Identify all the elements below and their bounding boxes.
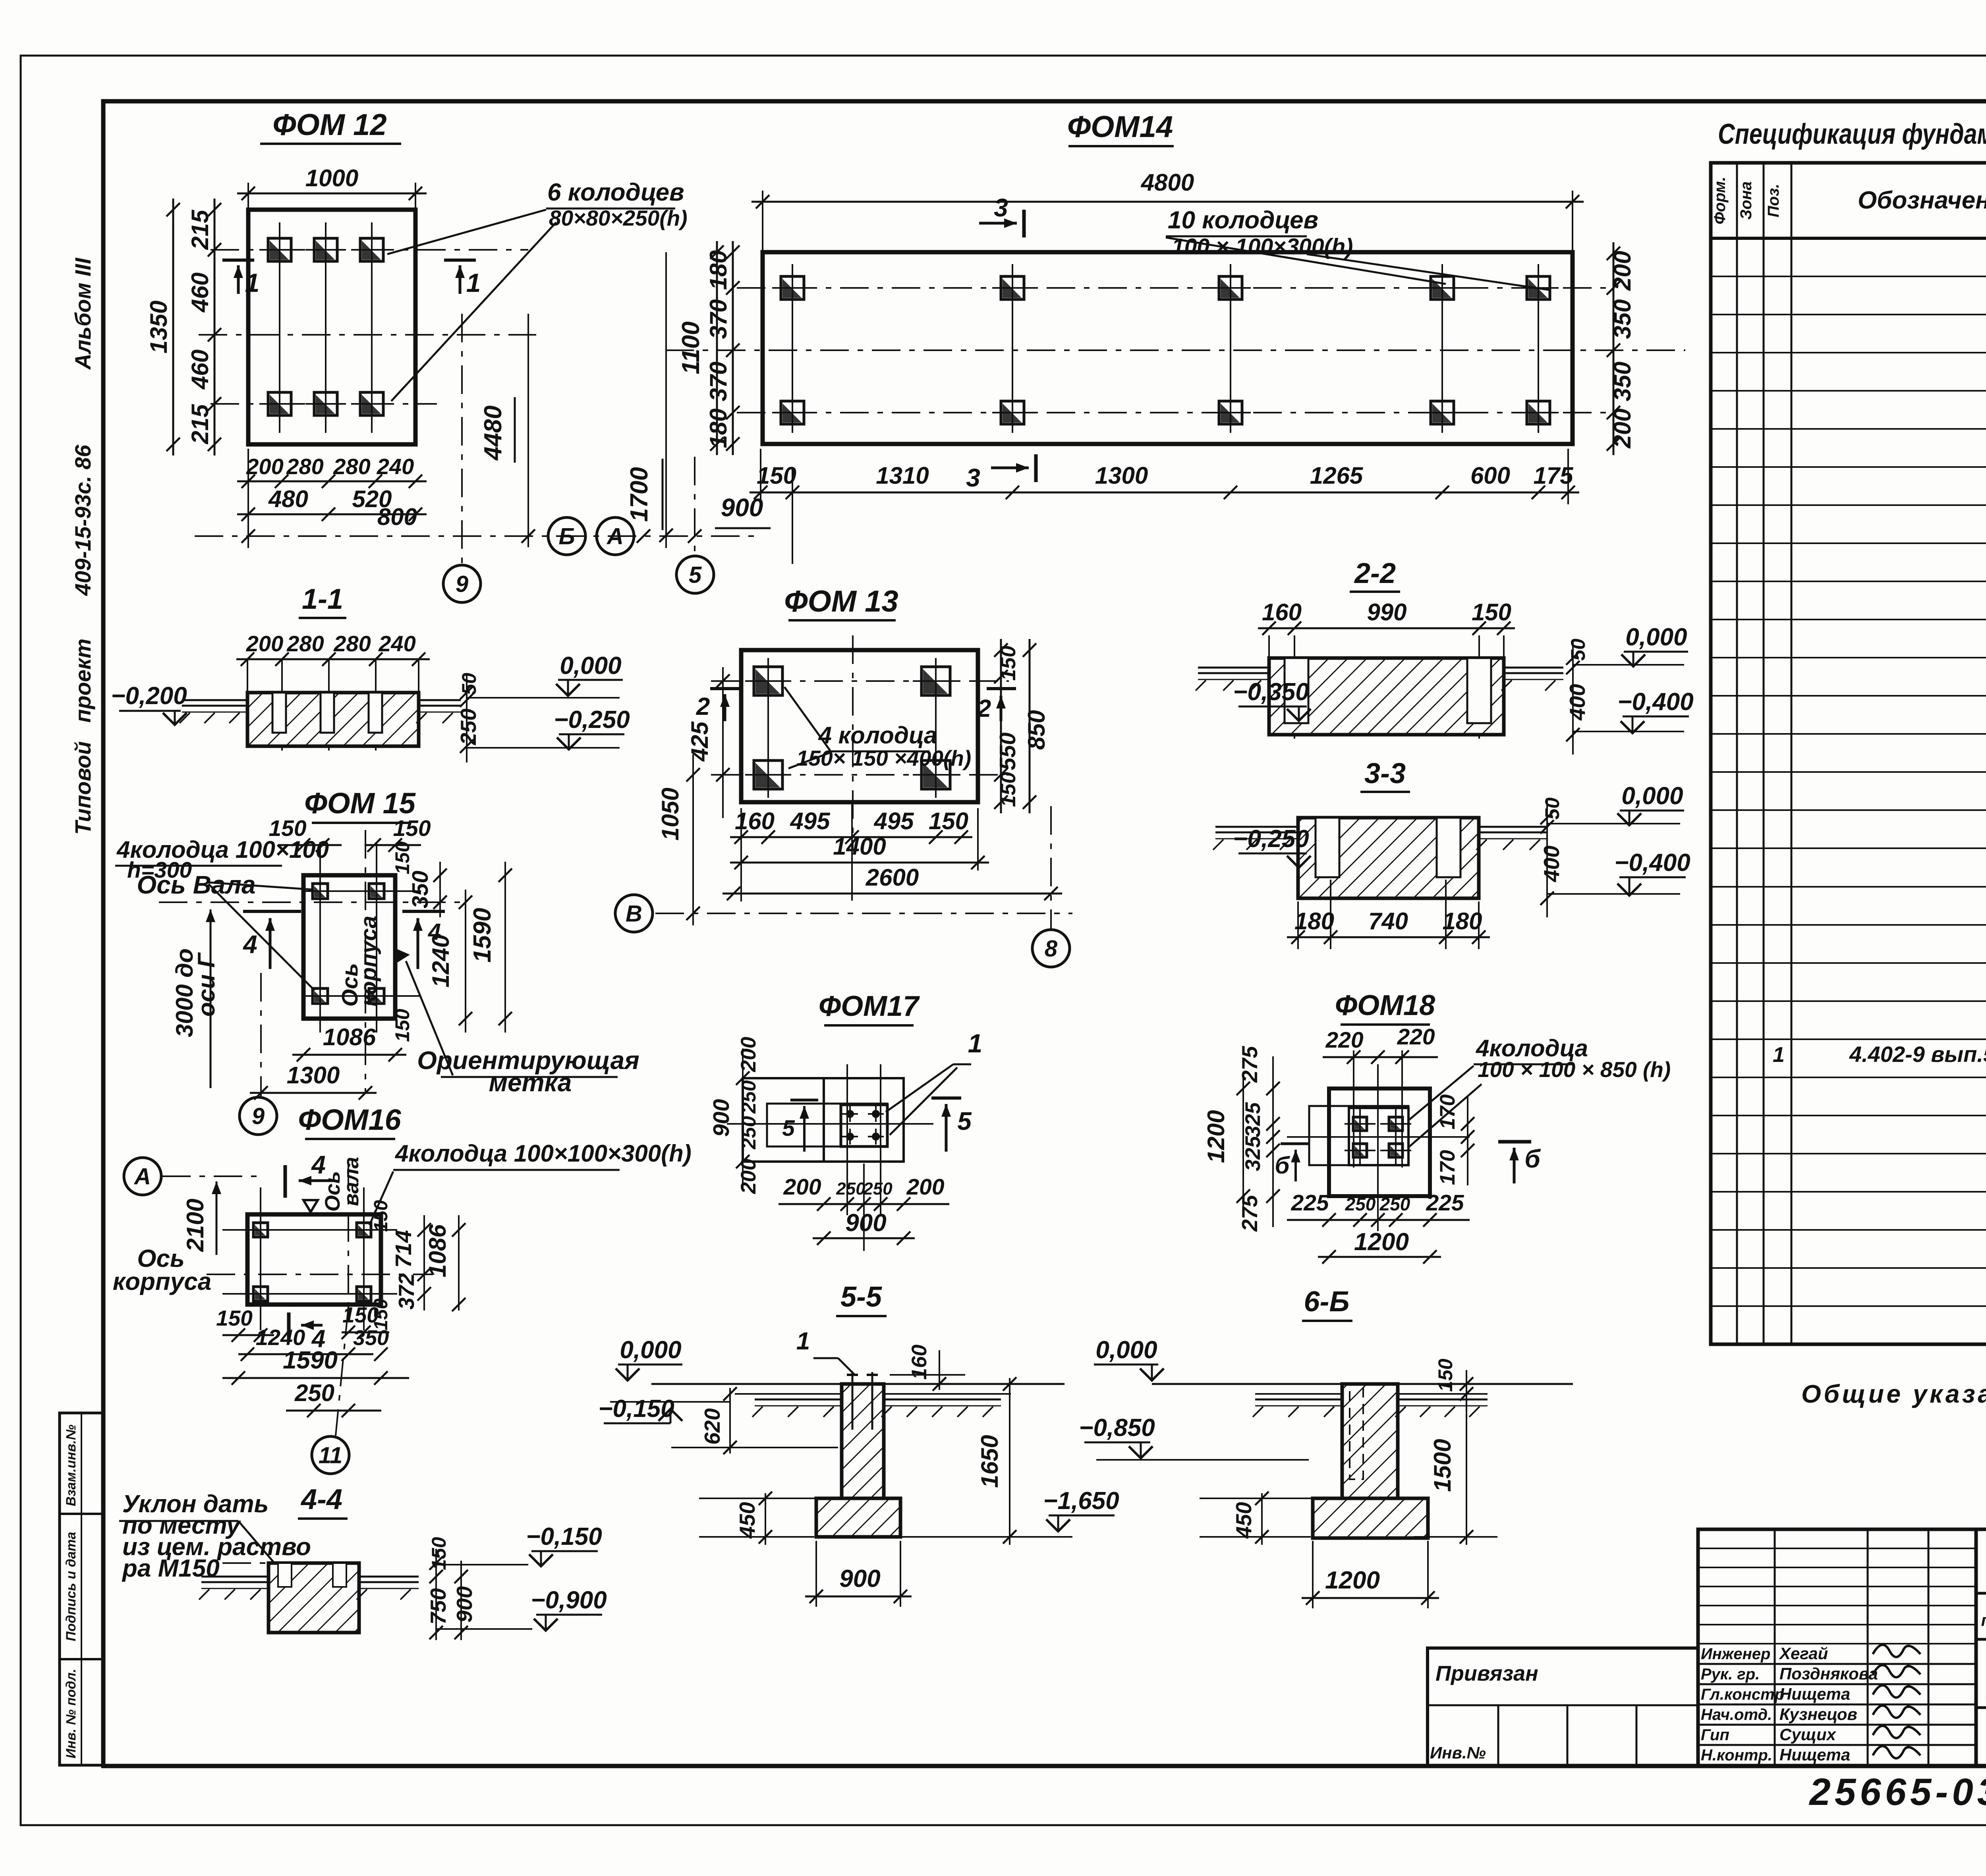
- FOM12 plan outline: [248, 210, 415, 444]
- axis circle A left of FOM16: [124, 1158, 161, 1195]
- svg-text:ФОМ14: ФОМ14: [1067, 110, 1173, 144]
- svg-text:325: 325: [1241, 1102, 1265, 1137]
- svg-text:150: 150: [929, 808, 968, 834]
- svg-text:600: 600: [1470, 462, 1510, 489]
- svg-text:Нач.отд.: Нач.отд.: [1701, 1706, 1772, 1724]
- FOM13 extension lines bottom: [740, 808, 742, 901]
- FOM18 wells: [1345, 1108, 1376, 1139]
- svg-text:1700: 1700: [626, 467, 653, 522]
- svg-text:495: 495: [873, 808, 914, 834]
- svg-text:0,000: 0,000: [620, 1336, 681, 1364]
- svg-text:4 колодца: 4 колодца: [818, 722, 937, 749]
- FOM16 anchor wells: [245, 1214, 276, 1246]
- svg-text:А: А: [606, 523, 624, 549]
- section 2-2 ground left: [1198, 672, 1269, 674]
- svg-text:150: 150: [393, 816, 431, 841]
- axis circle A: [597, 517, 634, 555]
- svg-text:250: 250: [1345, 1194, 1376, 1214]
- svg-text:Взам.инв.№: Взам.инв.№: [64, 1424, 79, 1506]
- svg-text:1086: 1086: [323, 1024, 376, 1050]
- axis circle 5: [676, 556, 714, 593]
- svg-text:4480: 4480: [479, 405, 507, 461]
- svg-text:Хегай: Хегай: [1779, 1644, 1828, 1663]
- svg-text:150: 150: [371, 1200, 392, 1232]
- section 6-6 dim 450: [1261, 1493, 1263, 1545]
- svg-text:280: 280: [333, 454, 370, 479]
- section 1-1 top dims 200/280/280/240: [236, 658, 430, 660]
- FOM18 equipment outline: [1309, 1106, 1408, 1165]
- svg-text:5: 5: [782, 1116, 795, 1141]
- FOM16 plan outline: [247, 1214, 381, 1305]
- FOM17 equipment outline: [767, 1104, 887, 1146]
- svg-text:200: 200: [246, 454, 283, 479]
- FOM13 bottom dims 160/495/495/150: [730, 836, 972, 838]
- section 6-6 bottom dim 1200: [1302, 1597, 1439, 1599]
- svg-text:714: 714: [391, 1230, 416, 1268]
- svg-text:1200: 1200: [1203, 1110, 1229, 1163]
- svg-text:240: 240: [377, 454, 414, 479]
- title block staff table: [1698, 1529, 1976, 1766]
- svg-text:150: 150: [391, 841, 413, 874]
- svg-text:150: 150: [1472, 599, 1511, 625]
- svg-text:Типовой проект: Типовой проект: [70, 639, 95, 835]
- FOM18 inner plate: [1349, 1108, 1408, 1165]
- svg-text:1200: 1200: [1354, 1228, 1409, 1256]
- svg-text:3: 3: [966, 463, 980, 492]
- FOM15 dim 1590: [504, 862, 506, 1033]
- FOM17 bolts: [846, 1110, 854, 1118]
- svg-text:1: 1: [1773, 1043, 1785, 1067]
- svg-text:275: 275: [1237, 1195, 1262, 1232]
- FOM13 centerlines: [711, 680, 1009, 682]
- section 6-6 base: [1313, 1498, 1428, 1538]
- svg-text:4: 4: [428, 919, 441, 945]
- FOM13 section mark 2 right: [987, 687, 1016, 690]
- svg-text:200: 200: [737, 1037, 760, 1072]
- svg-text:−0,250: −0,250: [1233, 825, 1309, 853]
- FOM12 top dimension 1000: [237, 193, 427, 195]
- FOM13 dim 2600: [723, 893, 1062, 895]
- svg-text:150× 150 ×400(h): 150× 150 ×400(h): [796, 746, 971, 770]
- svg-text:ФОМ17: ФОМ17: [819, 990, 920, 1022]
- svg-text:ра М150: ра М150: [122, 1555, 220, 1582]
- FOM15 orientation mark: [397, 949, 410, 963]
- svg-text:Привязан: Привязан: [1435, 1662, 1538, 1685]
- spec table grid: [1711, 163, 1986, 1344]
- svg-text:10 колодцев: 10 колодцев: [1168, 207, 1318, 234]
- svg-text:Гип: Гип: [1701, 1726, 1729, 1744]
- svg-text:180: 180: [1442, 908, 1482, 934]
- FOM12 bottom dimensions 480/520: [237, 513, 427, 515]
- svg-text:350: 350: [1609, 299, 1636, 339]
- svg-text:−0,150: −0,150: [526, 1523, 602, 1550]
- FOM15 section mark 4 right: [402, 910, 445, 913]
- svg-text:1265: 1265: [1310, 462, 1364, 489]
- section 1-1 floor line: [182, 699, 247, 701]
- section 2-2 ground right: [1504, 672, 1563, 674]
- svg-text:h=300: h=300: [127, 857, 192, 883]
- svg-text:325: 325: [1241, 1135, 1265, 1171]
- svg-text:250: 250: [1379, 1194, 1410, 1214]
- svg-text:2600: 2600: [865, 864, 919, 891]
- svg-text:Инженер: Инженер: [1701, 1645, 1770, 1663]
- svg-text:6 колодцев: 6 колодцев: [547, 179, 684, 206]
- svg-text:Кузнецов: Кузнецов: [1779, 1705, 1857, 1724]
- svg-text:Инв.№: Инв.№: [1430, 1743, 1486, 1762]
- svg-text:Б: Б: [558, 523, 575, 549]
- svg-text:−0,400: −0,400: [1614, 849, 1690, 876]
- FOM16 section mark 4 top: [284, 1165, 287, 1198]
- axis circle 9 under FOM12: [443, 565, 481, 602]
- section 3-3 ground right: [1479, 832, 1548, 834]
- svg-text:370: 370: [705, 361, 732, 401]
- FOM12 section mark 1 left: [222, 259, 254, 262]
- svg-text:200: 200: [906, 1174, 944, 1200]
- FOM18 section mark b left: [1281, 1143, 1310, 1145]
- svg-text:550: 550: [995, 732, 1020, 770]
- svg-text:9: 9: [456, 571, 468, 597]
- svg-text:200: 200: [1609, 408, 1636, 448]
- FOM12 left dimensions 215/460/460/215: [214, 199, 216, 455]
- FOM13 section mark 2 left: [710, 687, 740, 690]
- FOM14 section mark 3 bottom: [991, 467, 1029, 469]
- svg-text:250: 250: [294, 1380, 334, 1406]
- section 1-1 right dims 50/250: [466, 675, 468, 762]
- FOM18 plan outline: [1329, 1089, 1430, 1196]
- svg-text:5: 5: [957, 1107, 972, 1135]
- svg-text:Рук. гр.: Рук. гр.: [1701, 1666, 1760, 1683]
- svg-text:Форм.: Форм.: [1711, 177, 1729, 224]
- privyazan box: [1428, 1648, 1698, 1766]
- svg-text:250: 250: [836, 1179, 865, 1199]
- svg-text:2: 2: [696, 693, 710, 720]
- svg-text:1200: 1200: [1325, 1567, 1380, 1594]
- FOM17 section mark 5 right: [931, 1096, 961, 1100]
- svg-text:Спецификация фундаментов под: Спецификация фундаментов под оборудовани…: [1718, 118, 1986, 150]
- svg-text:150: 150: [269, 816, 306, 841]
- section 6-6 dim 150: [1466, 1370, 1467, 1545]
- svg-text:Поз.: Поз.: [1765, 184, 1782, 218]
- section 3-3 floor lines: [1215, 826, 1298, 828]
- svg-text:1: 1: [245, 268, 260, 297]
- FOM14 centerlines: [737, 287, 1615, 289]
- svg-text:Альбом III: Альбом III: [70, 257, 95, 371]
- svg-text:4-4: 4-4: [300, 1484, 342, 1515]
- FOM13 dim 1400: [730, 862, 989, 864]
- svg-text:900: 900: [845, 1209, 886, 1237]
- svg-text:215: 215: [187, 209, 213, 250]
- svg-text:1240: 1240: [256, 1325, 305, 1350]
- FOM15 section mark 4 left: [243, 910, 301, 913]
- svg-text:25665-03 30: 25665-03 30: [1808, 1771, 1986, 1813]
- FOM14 bottom dimensions: [750, 492, 1579, 494]
- svg-text:Гл.констр: Гл.констр: [1701, 1686, 1784, 1703]
- svg-text:Сущих: Сущих: [1779, 1725, 1837, 1744]
- svg-text:1050: 1050: [657, 787, 684, 840]
- svg-text:460: 460: [187, 272, 213, 313]
- FOM18 bottom dim 1200: [1318, 1256, 1441, 1258]
- svg-text:5: 5: [689, 562, 702, 588]
- axis line B-A: [195, 535, 763, 537]
- svg-text:400: 400: [1539, 845, 1564, 882]
- svg-text:корпуса: корпуса: [356, 916, 381, 1006]
- svg-text:750: 750: [426, 1588, 450, 1625]
- svg-text:1: 1: [796, 1328, 810, 1355]
- svg-text:450: 450: [735, 1502, 759, 1539]
- FOM18 section mark b right: [1498, 1140, 1531, 1144]
- section 1-1 body: [247, 693, 419, 746]
- section 2-2 top dims 160/990/150: [1258, 627, 1515, 629]
- svg-text:740: 740: [1368, 908, 1408, 934]
- FOM15 dim 1240: [465, 890, 466, 1033]
- svg-text:180: 180: [705, 250, 732, 290]
- FOM15 anchor wells: [304, 875, 336, 907]
- FOM16 orientation triangle: [303, 1200, 318, 1212]
- FOM17 bottom dim 900: [813, 1237, 915, 1239]
- svg-text:220: 220: [1397, 1024, 1435, 1050]
- section 2-2 right dims 50/400: [1572, 639, 1574, 755]
- svg-text:−0,350: −0,350: [1233, 678, 1309, 706]
- svg-text:225: 225: [1291, 1190, 1329, 1216]
- section 6-6 floor lines: [1152, 1383, 1342, 1385]
- title block right part: [1976, 1529, 1986, 1766]
- FOM13 left dims: [722, 667, 724, 818]
- svg-text:372: 372: [394, 1273, 419, 1310]
- svg-text:280: 280: [286, 454, 323, 479]
- svg-text:100 × 100×300(h): 100 × 100×300(h): [1172, 234, 1353, 259]
- svg-text:Позднякова: Позднякова: [1779, 1664, 1878, 1683]
- FOM17 plan outline: [743, 1078, 904, 1162]
- svg-text:50: 50: [1567, 639, 1589, 661]
- section 5-5 pillar: [842, 1384, 884, 1498]
- section 1-1 ground right: [419, 705, 461, 707]
- svg-text:2100: 2100: [182, 1199, 209, 1252]
- svg-text:50: 50: [458, 673, 480, 695]
- svg-text:1500: 1500: [1429, 1439, 1456, 1492]
- svg-text:250: 250: [738, 1116, 760, 1150]
- svg-text:0,000: 0,000: [1625, 623, 1687, 651]
- axis circle 9 under FOM15: [240, 1097, 277, 1135]
- svg-text:900: 900: [839, 1565, 880, 1592]
- section 6-6 pillar: [1342, 1384, 1398, 1498]
- svg-text:оси Г: оси Г: [193, 952, 220, 1017]
- svg-text:409-15-93с. 86: 409-15-93с. 86: [70, 444, 95, 596]
- svg-text:1000: 1000: [305, 165, 358, 191]
- svg-text:б: б: [1524, 1145, 1541, 1173]
- FOM17 section mark 5 left: [790, 1099, 818, 1102]
- svg-text:200: 200: [1609, 251, 1636, 291]
- FOM13 right dims 150/550/150 and 850: [1000, 639, 1002, 813]
- FOM15 centerlines: [159, 901, 465, 903]
- FOM17 bolts square: [841, 1105, 887, 1146]
- svg-text:180: 180: [1294, 908, 1334, 934]
- svg-text:250: 250: [456, 708, 481, 745]
- FOM17 centerlines: [727, 1123, 933, 1125]
- svg-text:9: 9: [252, 1103, 265, 1129]
- svg-text:6-Б: 6-Б: [1304, 1286, 1350, 1318]
- svg-text:425: 425: [686, 721, 713, 762]
- FOM16 centerlines: [207, 1274, 433, 1275]
- svg-text:3: 3: [994, 193, 1008, 222]
- svg-text:80×80×250(h): 80×80×250(h): [549, 206, 688, 230]
- svg-text:370: 370: [705, 299, 732, 339]
- svg-text:−0,900: −0,900: [531, 1586, 607, 1614]
- svg-text:1: 1: [466, 268, 481, 297]
- svg-text:900: 900: [452, 1586, 477, 1623]
- svg-text:800: 800: [377, 504, 417, 530]
- svg-text:215: 215: [187, 403, 213, 444]
- svg-text:1300: 1300: [1095, 462, 1148, 489]
- section 4-4 body: [269, 1563, 359, 1633]
- section 4-4 right dims: [435, 1549, 437, 1640]
- section 5-5 dim 620: [729, 1388, 731, 1453]
- axis circle 11 under FOM16: [312, 1436, 349, 1474]
- FOM12 section mark 1 right: [444, 259, 476, 262]
- svg-text:−0,850: −0,850: [1079, 1414, 1155, 1442]
- svg-text:0,000: 0,000: [560, 652, 621, 679]
- svg-text:В: В: [626, 901, 642, 926]
- svg-text:460: 460: [187, 349, 213, 390]
- svg-text:11: 11: [319, 1442, 342, 1468]
- svg-text:50: 50: [1541, 797, 1563, 820]
- FOM14 dimension 1700: [665, 252, 667, 548]
- svg-text:240: 240: [378, 631, 415, 656]
- FOM14 plan outline: [763, 252, 1573, 444]
- svg-text:1590: 1590: [283, 1347, 338, 1374]
- section 2-2 body: [1269, 658, 1504, 735]
- svg-text:200: 200: [246, 631, 283, 656]
- svg-text:1-1: 1-1: [302, 583, 343, 615]
- svg-text:Нищета: Нищета: [1779, 1685, 1850, 1703]
- svg-text:275: 275: [1237, 1046, 1262, 1083]
- svg-text:200: 200: [783, 1174, 821, 1200]
- svg-text:495: 495: [790, 808, 831, 834]
- FOM15 bottom dim 1086: [292, 1054, 406, 1056]
- svg-text:ФОМ 12: ФОМ 12: [272, 108, 386, 142]
- FOM14 right dimensions 200/350/350/200: [1613, 242, 1615, 455]
- svg-text:ФОМ 13: ФОМ 13: [784, 585, 898, 618]
- svg-text:150: 150: [1434, 1359, 1457, 1392]
- section 5-5 base: [816, 1498, 900, 1537]
- svg-text:Инв. № подл.: Инв. № подл.: [64, 1669, 79, 1758]
- svg-text:вала: вала: [340, 1157, 363, 1206]
- FOM12 anchor wells: [259, 230, 300, 270]
- section 5-5 floor lines: [651, 1383, 842, 1385]
- svg-text:2: 2: [977, 695, 991, 722]
- svg-text:280: 280: [286, 631, 324, 656]
- svg-text:170: 170: [1436, 1094, 1459, 1129]
- FOM14 dimension 1100: [716, 241, 718, 455]
- section 1-1 ground left: [182, 705, 247, 707]
- axis extension line right of 5: [792, 469, 793, 564]
- svg-text:150: 150: [997, 772, 1020, 807]
- svg-text:1650: 1650: [976, 1435, 1003, 1488]
- svg-text:150: 150: [391, 1009, 413, 1042]
- svg-text:225: 225: [1426, 1190, 1464, 1216]
- svg-text:8: 8: [1045, 936, 1058, 961]
- svg-text:Подпись и дата: Подпись и дата: [64, 1532, 79, 1641]
- section 2-2 floor lines: [1198, 667, 1269, 669]
- section 5-5 dim 1650: [1009, 1378, 1010, 1545]
- svg-text:метка: метка: [489, 1068, 572, 1097]
- svg-text:Н.контр.: Н.контр.: [1701, 1747, 1772, 1764]
- svg-text:корпуса: корпуса: [113, 1268, 211, 1295]
- svg-text:4: 4: [242, 930, 257, 959]
- svg-text:4колодца 100×100×300(h): 4колодца 100×100×300(h): [395, 1140, 692, 1167]
- section 3-3 ground left: [1215, 832, 1298, 834]
- FOM16 section mark 4 bottom: [287, 1312, 291, 1341]
- axis circle V: [615, 895, 653, 932]
- section 3-3 bottom dims 180/740/180: [1287, 936, 1490, 938]
- svg-text:Нищета: Нищета: [1779, 1745, 1850, 1764]
- svg-text:−0,150: −0,150: [598, 1395, 674, 1422]
- svg-text:150: 150: [757, 462, 796, 489]
- svg-text:900: 900: [709, 1099, 734, 1137]
- FOM12 dimension 1350: [172, 199, 174, 455]
- svg-text:−0,200: −0,200: [111, 682, 187, 710]
- svg-text:−1,650: −1,650: [1043, 1487, 1119, 1515]
- svg-text:620: 620: [700, 1408, 724, 1445]
- section 5-5 bottom dim 900: [805, 1596, 912, 1598]
- section 5-5 dim 450: [765, 1493, 766, 1545]
- svg-text:0,000: 0,000: [1621, 782, 1683, 810]
- svg-text:3-3: 3-3: [1364, 758, 1406, 789]
- svg-text:4.402-9 вып.5: 4.402-9 вып.5: [1849, 1042, 1986, 1067]
- svg-text:−0,250: −0,250: [554, 706, 630, 733]
- svg-text:350: 350: [353, 1326, 389, 1350]
- FOM15 bottom dim 1300: [250, 1092, 377, 1094]
- FOM13 anchor wells: [745, 658, 791, 704]
- svg-text:2-2: 2-2: [1354, 558, 1396, 589]
- FOM14 anchor wells: [772, 268, 813, 308]
- section 3-3 body: [1298, 818, 1479, 898]
- svg-text:250: 250: [863, 1179, 893, 1199]
- svg-text:А: А: [133, 1164, 151, 1189]
- svg-text:150: 150: [997, 646, 1020, 681]
- FOM14 left dimensions 180/370/370/180: [732, 241, 734, 455]
- svg-text:350: 350: [1609, 361, 1636, 401]
- svg-text:1310: 1310: [876, 462, 929, 489]
- section 4-4 floor lines: [201, 1576, 269, 1578]
- FOM18 centerlines: [1287, 1136, 1470, 1138]
- svg-text:−0,400: −0,400: [1617, 688, 1693, 716]
- svg-text:220: 220: [1325, 1027, 1363, 1053]
- svg-text:480: 480: [268, 486, 308, 512]
- section 6-6 well dashed: [1350, 1384, 1363, 1479]
- svg-text:1350: 1350: [145, 301, 172, 353]
- svg-text:1400: 1400: [833, 833, 886, 860]
- axis circle B: [548, 517, 585, 555]
- FOM14 section mark 3 top: [979, 222, 1017, 225]
- FOM14 top dimension 4800: [752, 201, 1584, 203]
- svg-text:150: 150: [216, 1306, 253, 1330]
- svg-text:1100: 1100: [677, 321, 705, 374]
- svg-text:990: 990: [1367, 599, 1406, 625]
- svg-text:Обозначение: Обозначение: [1858, 187, 1986, 214]
- svg-text:программой 200 тыс. руб. (для: программой 200 тыс. руб. (для районов с …: [1981, 1611, 1986, 1629]
- FOM12 centerlines: [211, 249, 528, 251]
- svg-text:160: 160: [1262, 599, 1302, 625]
- svg-text:170: 170: [1436, 1150, 1459, 1185]
- svg-text:0,000: 0,000: [1095, 1336, 1157, 1364]
- svg-text:ФОМ18: ФОМ18: [1335, 990, 1435, 1021]
- FOM12 bottom dimensions 200/280/280/240: [237, 481, 427, 483]
- svg-text:4800: 4800: [1141, 169, 1194, 196]
- svg-text:Общие указания см. лист 24: Общие указания см. лист 24: [1801, 1380, 1986, 1408]
- svg-text:450: 450: [1231, 1502, 1256, 1539]
- svg-text:ФОМ 15: ФОМ 15: [304, 787, 416, 820]
- svg-text:ФОМ16: ФОМ16: [298, 1103, 401, 1136]
